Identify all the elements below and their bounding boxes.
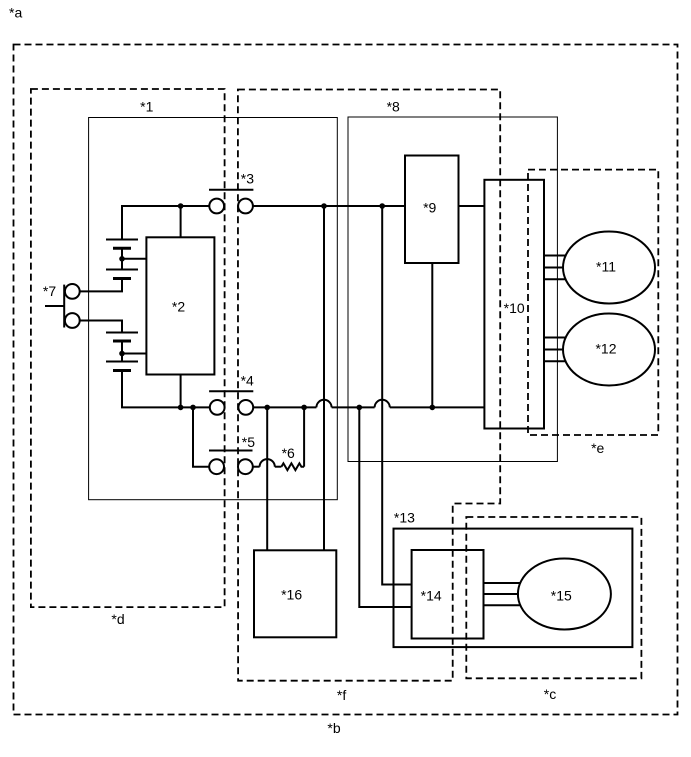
svg-text:*b: *b — [327, 720, 340, 736]
wire battery1 bottom lead to connector — [80, 279, 122, 292]
dashed box *f — [238, 90, 500, 681]
node dot battery1 tap — [119, 256, 125, 262]
box *9 — [405, 156, 459, 264]
switch *4 — [209, 391, 253, 415]
wire battery2 tap to *2 — [122, 353, 146, 355]
svg-text:*7: *7 — [43, 283, 56, 299]
box *16 — [254, 550, 336, 637]
switch *3 — [209, 190, 253, 214]
wire node dot to *16 left lead — [266, 407, 268, 550]
motor *12 — [563, 314, 655, 386]
resistor *6 — [281, 463, 304, 470]
svg-text:*14: *14 — [421, 587, 442, 603]
wires *10 to *12 — [544, 338, 566, 362]
wire branch to switch *5 — [193, 407, 209, 466]
box *13 — [394, 529, 633, 648]
wire bottom bus right with hops — [253, 400, 484, 408]
wires *10 to *11 — [544, 256, 566, 280]
svg-text:*10: *10 — [504, 300, 525, 316]
switch *5 — [209, 451, 253, 475]
wire *2 top lead — [180, 206, 182, 237]
dashed box *c — [466, 517, 641, 678]
box *14 — [412, 550, 484, 639]
wire node B down to *14 — [382, 206, 411, 585]
wire *2 bottom lead — [180, 375, 182, 408]
svg-text:*9: *9 — [423, 200, 436, 216]
wire connector to battery2 — [80, 321, 122, 333]
svg-text:*3: *3 — [241, 171, 254, 187]
wire bus to *14 lower — [359, 407, 411, 607]
battery *2 upper: cell plates — [106, 240, 138, 279]
svg-text:*5: *5 — [242, 434, 255, 450]
box *1 — [89, 118, 338, 500]
wire top bus left — [122, 206, 209, 240]
node dot top bus A — [321, 203, 327, 209]
node dot top bus B — [379, 203, 385, 209]
box *8 — [348, 117, 557, 462]
svg-text:*4: *4 — [241, 373, 254, 389]
svg-text:*16: *16 — [281, 587, 302, 603]
battery *2 lower: cell plates — [106, 333, 138, 371]
wire *5 output with hop — [253, 459, 282, 467]
svg-text:*1: *1 — [140, 98, 153, 114]
svg-text:*f: *f — [337, 687, 346, 703]
node dot bottom bus to *16 — [264, 405, 270, 411]
node dot battery2 tap — [119, 351, 125, 357]
wire battery2 bottom lead — [122, 371, 210, 408]
dashed box *d — [31, 89, 225, 607]
dashed box *e — [528, 170, 658, 435]
wire battery1 tap to *2 — [122, 258, 146, 260]
node dot top bus at *2 — [178, 203, 184, 209]
svg-text:*11: *11 — [596, 258, 616, 274]
svg-text:*e: *e — [591, 440, 604, 456]
box *10 — [484, 180, 544, 429]
motor *11 — [563, 232, 655, 304]
svg-text:*c: *c — [544, 686, 556, 702]
wire resistor up to bus — [303, 407, 305, 466]
svg-text:*12: *12 — [595, 340, 616, 356]
node dot bottom bus at *9 — [430, 405, 436, 411]
box *2 — [146, 237, 214, 374]
svg-text:*d: *d — [111, 611, 124, 627]
svg-text:*8: *8 — [387, 98, 400, 114]
svg-text:*2: *2 — [172, 298, 185, 314]
motor *15 — [518, 559, 611, 630]
wire top bus right — [253, 205, 405, 207]
wires *14 to *15 — [484, 583, 522, 605]
node dot bottom bus to *14 — [357, 405, 363, 411]
node dot bottom bus at *5 branch — [190, 405, 196, 411]
svg-text:*15: *15 — [551, 588, 572, 604]
connector *7 — [45, 284, 80, 328]
wire node A down to *16 — [323, 206, 325, 550]
svg-text:*a: *a — [9, 5, 22, 21]
wire *9 bottom to bus — [431, 263, 433, 407]
svg-text:*13: *13 — [394, 509, 415, 525]
svg-text:*6: *6 — [282, 445, 295, 461]
wire *9 to *10 — [459, 205, 485, 207]
node dot bottom bus at *2 — [178, 405, 184, 411]
node dot bottom bus resistor return — [301, 405, 307, 411]
